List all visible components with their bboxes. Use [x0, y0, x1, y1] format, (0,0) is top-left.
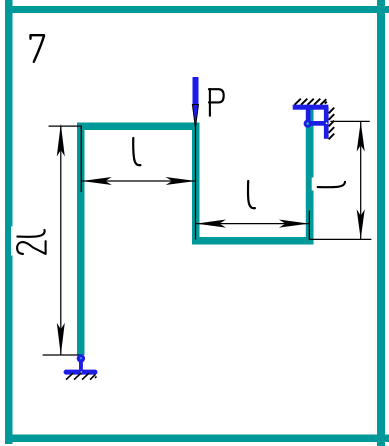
arrowhead l3 top: [357, 122, 365, 152]
support A top bar: [293, 105, 329, 110]
arrowhead 2l bottom: [57, 323, 65, 356]
extension line top of 2l dimension: [49, 125, 82, 127]
label l3 (rotated l): [318, 182, 345, 187]
support B hatching: [67, 374, 97, 380]
arrowhead 2l top: [57, 124, 65, 157]
label l2: [248, 181, 255, 208]
arrowhead l2 left: [196, 220, 226, 228]
node label white box for rotated l (right dimension): [312, 178, 348, 191]
border frame top bar: [5, 6, 389, 13]
dimension line l3: [360, 121, 362, 239]
dimension line 2l: [60, 126, 62, 355]
dimension line l1: [82, 180, 196, 182]
extension line bottom of 2l dimension: [43, 354, 82, 356]
support A (top right): hatching above: [295, 99, 327, 105]
support A second pin dot: [326, 122, 328, 124]
border frame right bar: [377, 0, 385, 446]
label P: [209, 89, 224, 116]
support A right vertical bar: [324, 107, 329, 139]
label 7 (figure number): [31, 35, 45, 62]
support A hatching right: [329, 108, 335, 140]
load P arrowhead: [192, 105, 198, 128]
extension line right of dim l2 (through right member): [308, 211, 310, 240]
arrowhead l1 right: [166, 177, 196, 185]
support A vertical connector: [306, 109, 311, 121]
wire: frame left vertical member: [77, 123, 85, 356]
wire: frame top horizontal member: [77, 123, 200, 131]
load P arrow shaft: [193, 77, 199, 105]
arrowhead l2 right: [279, 220, 309, 228]
support A pin circle: [304, 120, 312, 128]
dimension line l2: [196, 223, 309, 225]
wire: frame bottom horizontal member: [192, 237, 314, 245]
wire: frame middle vertical member: [192, 123, 200, 245]
extension line left of dim l1 (through left member): [80, 126, 82, 192]
border frame left bar: [5, 0, 13, 444]
label l1: [133, 138, 140, 165]
extension line top of right l3 dimension: [330, 120, 369, 122]
support B stem: [79, 360, 83, 370]
support B base bar: [64, 370, 98, 375]
support A bar to pin right: [309, 121, 327, 126]
wire: frame right vertical member: [306, 110, 314, 245]
label 2l (rotated): [17, 230, 45, 254]
extension line bottom of right l3 dimension: [310, 238, 371, 240]
support B (bottom left): pin circle: [77, 354, 85, 362]
label 2l white box: [11, 227, 48, 256]
extension line middle (through middle member): [195, 124, 197, 240]
arrowhead l1 left: [82, 177, 112, 185]
border frame bottom bar: [5, 435, 389, 443]
arrowhead l3 bottom: [357, 209, 365, 239]
